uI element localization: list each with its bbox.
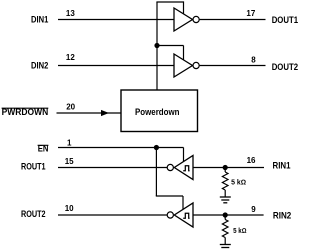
svg-text:DIN1: DIN1 xyxy=(31,15,48,25)
ground for R1 xyxy=(220,197,231,203)
svg-text:RIN2: RIN2 xyxy=(273,211,291,221)
wire powerdown enable vertical riser xyxy=(156,2,158,90)
powerdown block xyxy=(121,90,198,132)
svg-text:17: 17 xyxy=(246,9,255,18)
svg-text:8: 8 xyxy=(251,55,256,64)
junction on EN line xyxy=(154,145,159,150)
node EN (active low) xyxy=(38,143,49,153)
wire enable horizontal to receiver 2 xyxy=(156,195,183,197)
svg-text:ROUT2: ROUT2 xyxy=(21,209,46,219)
wire enable top horizontal xyxy=(156,1,183,3)
resistor R2 5k xyxy=(222,215,228,245)
wire DIN1 to driver 1 input xyxy=(58,19,174,21)
svg-text:DOUT2: DOUT2 xyxy=(272,62,298,72)
wire receiver 1 input from RIN1 xyxy=(193,167,264,169)
wire driver 2 output xyxy=(200,65,266,67)
ground for R2 xyxy=(220,245,231,248)
svg-text:RIN1: RIN1 xyxy=(273,161,291,171)
wire EN to receiver enables xyxy=(58,147,184,149)
svg-text:15: 15 xyxy=(65,157,74,166)
junction RIN2 / resistor xyxy=(223,212,228,217)
node PWRDOWN (active low) xyxy=(2,107,49,117)
svg-text:9: 9 xyxy=(251,205,256,214)
wire receiver 2 input from RIN2 xyxy=(193,214,264,216)
svg-text:20: 20 xyxy=(66,103,75,112)
wire ROUT1 from receiver 1 output xyxy=(58,167,167,169)
svg-text:10: 10 xyxy=(65,204,74,213)
wire PWRDOWN to powerdown block xyxy=(57,112,122,114)
receiver 2 (schmitt, inverting) xyxy=(167,203,193,227)
wire enable branch to driver 2 xyxy=(157,45,184,47)
junction RIN1 / resistor xyxy=(223,165,228,170)
svg-text:16: 16 xyxy=(247,156,256,165)
driver inverter 1 xyxy=(174,8,199,31)
svg-text:12: 12 xyxy=(66,53,75,62)
driver inverter 2 xyxy=(174,54,199,77)
svg-text:Powerdown: Powerdown xyxy=(135,107,180,117)
wire DIN2 to driver 2 input xyxy=(58,65,174,67)
wire enable riser down to receiver 2 xyxy=(155,148,157,197)
receiver 1 (schmitt, inverting) xyxy=(167,156,193,180)
wire enable drop into driver 2 xyxy=(183,46,185,61)
svg-text:13: 13 xyxy=(66,9,75,18)
svg-text:ROUT1: ROUT1 xyxy=(21,162,46,172)
wire enable drop into driver 1 xyxy=(183,1,185,14)
wire enable drop into receiver 1 xyxy=(183,148,185,163)
resistor R1 5k xyxy=(222,168,228,198)
wire enable drop into receiver 2 xyxy=(182,196,184,211)
svg-text:DIN2: DIN2 xyxy=(31,61,48,71)
wire driver 1 output xyxy=(200,19,266,21)
svg-text:5 kΩ: 5 kΩ xyxy=(231,180,246,187)
wire ROUT2 from receiver 2 output xyxy=(58,214,167,216)
svg-text:1: 1 xyxy=(67,139,72,148)
svg-text:DOUT1: DOUT1 xyxy=(272,15,298,25)
junction on enable riser xyxy=(154,43,159,48)
arrowhead into powerdown block xyxy=(101,110,109,116)
svg-text:5 kΩ: 5 kΩ xyxy=(233,228,246,235)
